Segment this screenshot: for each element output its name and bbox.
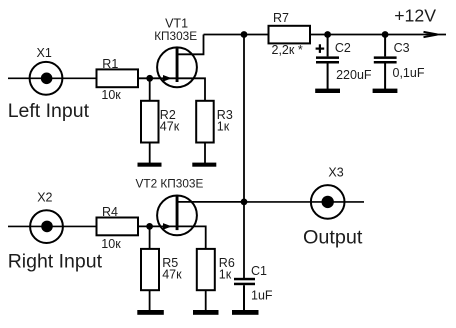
svg-text:C1: C1 <box>251 264 267 278</box>
wire drain trunk vertical <box>243 35 245 279</box>
junction node C2 <box>324 31 331 38</box>
ground for R5 <box>137 310 164 315</box>
svg-text:0,1uF: 0,1uF <box>393 66 425 80</box>
wire output node through X3 <box>244 201 364 203</box>
wire left stub through X1 <box>8 77 97 79</box>
junction node drain rail <box>241 31 248 38</box>
resistor R5 <box>141 226 159 310</box>
ground for R2 <box>138 163 162 167</box>
svg-text:10к: 10к <box>101 88 121 102</box>
resistor R2 <box>141 78 159 163</box>
svg-text:R1: R1 <box>102 57 118 71</box>
wire R1 to VT1 gate <box>138 77 176 79</box>
junction node output <box>241 199 248 206</box>
svg-text:10к: 10к <box>101 237 121 251</box>
transistor VT1 <box>157 35 205 102</box>
svg-text:47к: 47к <box>162 268 182 282</box>
connector X2 <box>30 210 63 243</box>
junction node C3 <box>382 31 389 38</box>
svg-text:C2: C2 <box>335 41 351 55</box>
transistor VT2 <box>157 196 244 250</box>
svg-text:220uF: 220uF <box>336 68 372 82</box>
capacitor C3 <box>374 35 397 90</box>
wire top rail <box>204 34 269 36</box>
svg-text:Right Input: Right Input <box>8 251 103 273</box>
svg-text:КП303Е: КП303Е <box>154 29 197 43</box>
ground for R3 <box>192 163 216 167</box>
svg-text:1к: 1к <box>219 268 232 282</box>
svg-text:X2: X2 <box>37 190 52 204</box>
ground for C2 <box>315 89 340 93</box>
svg-text:2,2к *: 2,2к * <box>272 43 303 57</box>
svg-text:1к: 1к <box>217 120 230 134</box>
resistor R4 <box>97 218 139 236</box>
wire left stub through X2 <box>8 225 97 227</box>
resistor R3 <box>196 101 214 163</box>
svg-text:1uF: 1uF <box>251 289 273 303</box>
wire R7 to +12V <box>310 34 446 36</box>
capacitor C2 <box>316 35 339 90</box>
svg-text:X3: X3 <box>328 166 343 180</box>
junction node gate2 <box>146 223 153 230</box>
polarity plus sign for C2 <box>316 44 325 53</box>
resistor R7 <box>269 26 311 44</box>
resistor R6 <box>197 249 215 311</box>
svg-text:+12V: +12V <box>394 6 436 26</box>
wire R4 to VT2 gate <box>138 225 176 227</box>
power +12V arrow <box>424 32 438 37</box>
ground for C1 <box>232 310 259 315</box>
capacitor C1 <box>234 278 255 311</box>
connector X3 <box>311 185 345 219</box>
connector X1 <box>30 62 63 95</box>
svg-text:VT2 КП303Е: VT2 КП303Е <box>136 177 204 191</box>
svg-text:R7: R7 <box>273 11 289 25</box>
svg-text:Left Input: Left Input <box>8 100 90 122</box>
ground for R6 <box>193 310 219 315</box>
resistor R1 <box>97 69 139 87</box>
svg-text:X1: X1 <box>37 46 52 60</box>
svg-text:C3: C3 <box>394 41 410 55</box>
svg-text:R4: R4 <box>102 205 118 219</box>
svg-text:Output: Output <box>303 226 363 248</box>
ground for C3 <box>373 89 398 93</box>
svg-text:47к: 47к <box>160 120 180 134</box>
junction node gate1 <box>146 75 153 82</box>
